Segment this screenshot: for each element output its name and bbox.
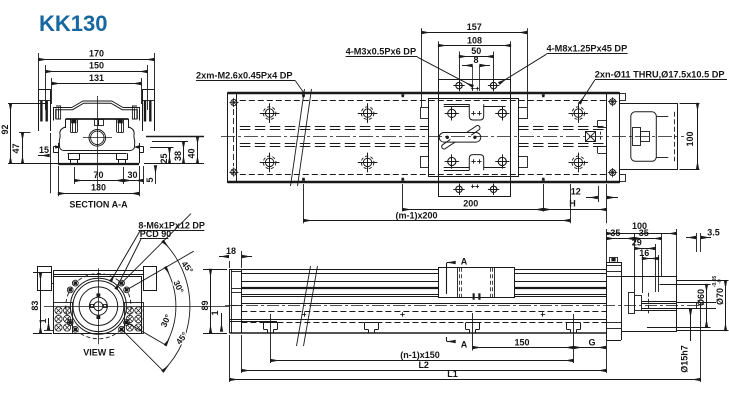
svg-text:18: 18 (226, 246, 236, 256)
svg-text:25: 25 (159, 153, 169, 163)
section A-A dims 70/30/130 (74, 167, 76, 184)
side view section A markers (446, 263, 448, 294)
side view dim O60 (660, 284, 711, 286)
svg-text:12: 12 (571, 187, 581, 197)
section A-A base feet (T-slots) (68, 153, 70, 160)
top view carriage M8 screws (448, 109, 456, 117)
top view carriage side bosses (421, 108, 429, 119)
svg-text:89: 89 (200, 300, 210, 310)
top view dim 200 (402, 184, 404, 212)
top view screw end bearing steps (598, 120, 607, 122)
top view dim 108 (438, 41, 440, 79)
top view dim (m-1)x200 (303, 184, 305, 223)
svg-text:5: 5 (145, 177, 155, 182)
top view screw-end nut symbol (586, 132, 596, 142)
top view dim H (543, 209, 606, 211)
side view dim 3.5 (696, 233, 698, 252)
top view M2.6 hole dots (302, 94, 305, 97)
top view carriage U notches (469, 104, 483, 120)
side view dim 89 (203, 269, 227, 271)
view E circles (66, 274, 131, 339)
svg-text:Ø15h7: Ø15h7 (680, 345, 690, 373)
top view plate M3 screws bottom tab (456, 186, 462, 192)
top view rail outline (228, 92, 620, 94)
svg-text:35: 35 (639, 228, 649, 238)
side view rail horizontals (229, 269, 438, 271)
svg-text:A: A (461, 256, 468, 266)
svg-text:Ø60: Ø60 (696, 289, 706, 306)
top view inner dashed rect (240, 100, 607, 102)
svg-text:L2: L2 (418, 360, 429, 370)
svg-text:1: 1 (38, 318, 48, 323)
side view dims 100/35/35/29/16 (606, 229, 608, 262)
side view coupling (629, 293, 635, 314)
svg-text:1: 1 (210, 310, 220, 315)
side view dim O15h7 (677, 302, 716, 304)
section A-A dim 92 (8, 103, 48, 105)
section A-A base block (58, 143, 60, 163)
section A-A dim 5 (155, 166, 157, 174)
svg-text:8: 8 (473, 55, 478, 65)
svg-text:38: 38 (173, 151, 183, 161)
top view motor housing (620, 104, 678, 170)
side view motor body (622, 277, 677, 332)
section A-A seal lips (55, 145, 60, 149)
svg-text:H: H (569, 198, 576, 208)
view E left post (38, 267, 52, 291)
svg-text:150: 150 (89, 61, 104, 71)
section A-A center tongue (95, 120, 99, 126)
svg-text:(n-1)x150: (n-1)x150 (400, 350, 440, 360)
svg-text:KK130: KK130 (39, 11, 107, 36)
view E top plate edge (54, 270, 144, 272)
svg-text:131: 131 (89, 73, 104, 83)
view E body block (54, 277, 142, 334)
top view end cap screws (231, 99, 237, 105)
svg-text:4-M3x0.5Px6 DP: 4-M3x0.5Px6 DP (346, 47, 416, 57)
top view centerline (221, 136, 684, 138)
svg-text:Ø70: Ø70 (715, 288, 725, 305)
top view dim 12 (598, 186, 600, 202)
svg-text:15: 15 (39, 145, 49, 155)
section A-A carriage body (66, 118, 129, 120)
svg-text:170: 170 (89, 49, 104, 59)
svg-text:70: 70 (93, 170, 103, 180)
svg-text:VIEW E: VIEW E (83, 347, 115, 357)
section A-A carriage top plate (54, 101, 140, 121)
side view shaft (677, 302, 701, 304)
svg-text:SECTION A-A: SECTION A-A (69, 200, 128, 210)
view E dim 1 (44, 330, 54, 332)
svg-text:L1: L1 (447, 369, 458, 379)
top view mounting holes (265, 109, 273, 117)
side view motor flange (606, 262, 608, 340)
section A-A plate hooks (56, 106, 61, 119)
top view rail slot lines (240, 126, 428, 128)
view E side screw stacks (54, 303, 73, 334)
svg-text:35: 35 (610, 228, 620, 238)
top view dim 157 (421, 28, 423, 107)
side view dim 18 (229, 261, 231, 268)
side view dim 150 (472, 313, 474, 351)
svg-text:108: 108 (467, 35, 482, 45)
side view dim L2 (241, 335, 243, 373)
svg-text:150: 150 (514, 337, 529, 347)
svg-text:47: 47 (11, 143, 21, 153)
side view dim O70 (677, 280, 729, 282)
svg-text:130: 130 (91, 183, 106, 193)
side view break lines (297, 266, 311, 346)
svg-text:-0: -0 (717, 279, 723, 284)
top view plate M3 screws top tab (456, 82, 462, 88)
section A-A wing columns (39, 89, 51, 91)
section A-A dims 25/38/40 (146, 136, 204, 138)
svg-text:100: 100 (685, 131, 695, 146)
svg-text:92: 92 (0, 124, 10, 134)
section A-A dims 170/150/131 (38, 53, 40, 110)
section A-A dim 15 (50, 133, 52, 193)
side view carriage (439, 268, 515, 298)
top view carriage top plate (439, 80, 511, 197)
top view dim 100 (motor) (680, 103, 700, 105)
svg-text:2xm-M2.6x0.45Px4 DP: 2xm-M2.6x0.45Px4 DP (196, 70, 293, 80)
side view feet (263, 323, 265, 330)
side view dim (n-1)x150 (270, 314, 272, 363)
top view dim 8 (462, 65, 472, 67)
side view M2.6 plus marks (302, 314, 306, 316)
svg-text:PCD 90: PCD 90 (140, 229, 172, 239)
section A-A ball screw bore (89, 130, 106, 147)
svg-text:16: 16 (639, 248, 649, 258)
top view carriage body (429, 99, 519, 177)
svg-text:(m-1)x200: (m-1)x200 (395, 210, 437, 220)
svg-text:G: G (588, 337, 595, 347)
top view lube lever (439, 133, 481, 143)
svg-text:3.5: 3.5 (707, 228, 720, 238)
svg-text:200: 200 (463, 198, 478, 208)
svg-text:2xn-Ø11 THRU,Ø17.5x10.5 DP: 2xn-Ø11 THRU,Ø17.5x10.5 DP (595, 69, 725, 79)
view E dim 83 (33, 272, 52, 274)
svg-text:30: 30 (127, 170, 137, 180)
svg-text:A: A (461, 339, 468, 349)
view E angle dims (122, 214, 191, 283)
view E bolt holes PCD (124, 287, 130, 293)
view E right post (144, 267, 157, 291)
svg-text:83: 83 (30, 301, 40, 311)
side view left end cap (229, 269, 231, 333)
side view dim G (574, 347, 606, 349)
svg-text:4-M8x1.25Px45 DP: 4-M8x1.25Px45 DP (547, 44, 628, 54)
section A-A dim 47 (19, 132, 31, 134)
top view dim 50 (459, 52, 461, 83)
svg-text:40: 40 (187, 148, 197, 158)
side view dim 1 (221, 313, 223, 332)
top view carriage slot lines (444, 104, 470, 106)
svg-text:157: 157 (467, 22, 482, 32)
section A-A M8 screws in body (70, 120, 72, 133)
svg-text:29: 29 (632, 237, 642, 247)
side view dim L1 (229, 335, 231, 382)
top view break lines (291, 89, 305, 186)
